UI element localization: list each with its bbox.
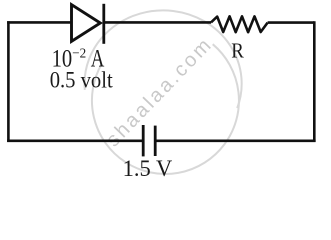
svg-text:shaalaa.com: shaalaa.com [102,33,217,151]
svg-text:R: R [231,39,244,63]
svg-text:1.5 V: 1.5 V [123,156,173,182]
svg-text:−2: −2 [72,47,86,62]
svg-text:0.5 volt: 0.5 volt [50,68,113,94]
